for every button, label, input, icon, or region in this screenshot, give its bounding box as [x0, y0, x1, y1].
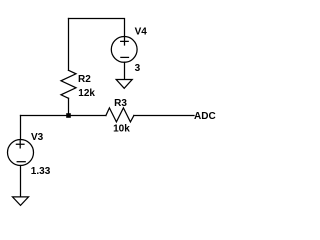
svg-text:ADC: ADC	[194, 111, 216, 122]
V3 minus sign	[17, 161, 25, 163]
ground symbol at V4	[116, 80, 132, 89]
junction node dot	[66, 113, 71, 118]
resistor R2	[61, 70, 76, 98]
wire bus left segment	[21, 115, 106, 117]
wire top loop from R2 top to V4 top	[69, 19, 125, 37]
V4 minus sign	[121, 56, 129, 58]
voltage source V3	[8, 140, 34, 166]
svg-text:10k: 10k	[113, 124, 130, 135]
voltage source V4	[111, 37, 137, 63]
svg-text:V3: V3	[31, 132, 44, 143]
svg-text:1.33: 1.33	[31, 166, 51, 177]
svg-text:12k: 12k	[78, 88, 95, 99]
svg-text:R2: R2	[78, 74, 91, 85]
resistor R3	[106, 108, 134, 122]
wire R3 to ADC	[134, 115, 194, 117]
wire V3 top stem	[20, 116, 22, 140]
V3 plus sign	[16, 141, 24, 148]
V4 plus sign	[121, 38, 129, 45]
svg-text:3: 3	[135, 63, 141, 74]
wire R2 bottom to node	[68, 98, 70, 115]
wire V3 bottom to ground	[20, 166, 22, 197]
ground symbol at V3	[13, 197, 29, 206]
svg-text:V4: V4	[135, 27, 148, 38]
wire V4 bottom to ground	[124, 62, 126, 79]
svg-text:R3: R3	[114, 98, 127, 109]
wire left vertical to R2	[68, 19, 70, 71]
